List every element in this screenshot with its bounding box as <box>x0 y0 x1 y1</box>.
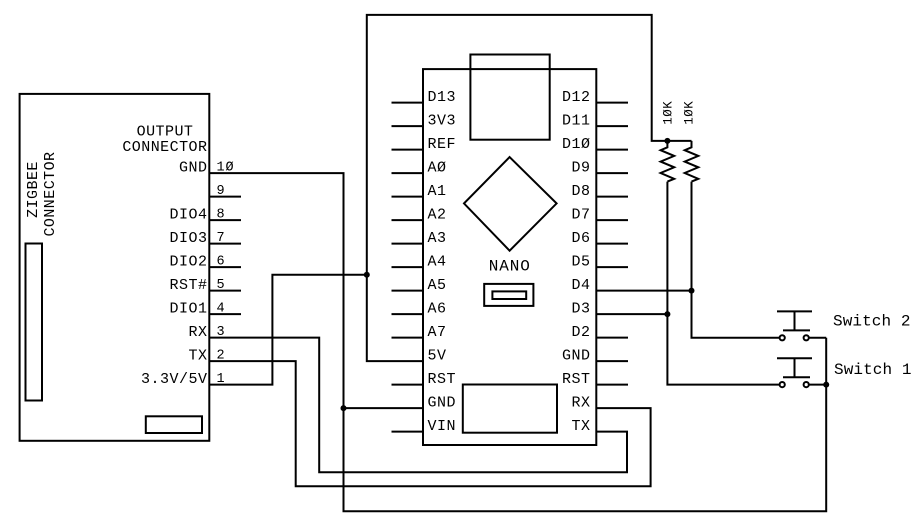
svg-text:1ØK: 1ØK <box>661 101 675 125</box>
svg-text:2: 2 <box>217 349 226 364</box>
svg-text:4: 4 <box>217 302 226 317</box>
resistor R2 10K (pull-up on D4) <box>685 141 699 182</box>
svg-text:A5: A5 <box>428 277 447 294</box>
svg-text:A1: A1 <box>428 183 447 200</box>
nano right pin D9 stub <box>596 172 628 174</box>
svg-text:D7: D7 <box>571 207 590 224</box>
svg-text:DIO1: DIO1 <box>169 301 207 318</box>
svg-text:NANO: NANO <box>489 258 531 276</box>
svg-text:OUTPUT: OUTPUT <box>137 124 194 141</box>
nano left pin A0 stub <box>392 172 424 174</box>
nano left pin REF stub <box>392 149 424 151</box>
svg-text:3V3: 3V3 <box>428 113 457 130</box>
nano right pin D5 stub <box>596 266 628 268</box>
svg-text:1ØK: 1ØK <box>683 101 697 125</box>
svg-text:3.3V/5V: 3.3V/5V <box>141 371 208 388</box>
svg-text:ZIGBEE: ZIGBEE <box>25 161 42 218</box>
zigbee pin 9 stub <box>209 196 241 198</box>
nano right pin D10 stub <box>596 149 628 151</box>
nano left pin D13 stub <box>392 102 424 104</box>
wire switch 2 right contact to GND rail <box>809 337 826 339</box>
nano icsp header outer <box>484 284 533 306</box>
svg-text:A4: A4 <box>428 254 447 271</box>
label OUTPUT CONNECTOR title <box>122 124 207 157</box>
nano diamond logo <box>464 157 557 251</box>
nano icsp header inner <box>492 291 526 299</box>
svg-text:GND: GND <box>428 395 457 412</box>
wire nano D3 to resistor R1 and switch 1 <box>596 313 667 315</box>
junction: switch1 right contact to GND rail <box>823 382 829 388</box>
zigbee connector bottom tab <box>146 416 202 433</box>
svg-text:A2: A2 <box>428 207 447 224</box>
nano bottom module rect <box>463 385 557 433</box>
zigbee pin 4 stub <box>209 313 241 315</box>
nano right pin RST stub <box>596 384 628 386</box>
svg-text:TX: TX <box>188 348 207 365</box>
nano left pin 3V3 stub <box>392 125 424 127</box>
junction: D3 wire to R1/switch1 line <box>664 311 670 317</box>
svg-text:D3: D3 <box>571 301 590 318</box>
nano right pin D11 stub <box>596 125 628 127</box>
wire GND: zigbee pin 10 down around bottom up to switch contacts <box>209 173 826 511</box>
svg-text:9: 9 <box>217 184 226 199</box>
zigbee pin 6 stub <box>209 266 241 268</box>
wire zigbee TX to nano RX <box>209 361 650 486</box>
label ZIGBEE CONNECTOR (rotated) <box>25 151 59 236</box>
wire zigbee RX to nano TX <box>209 338 627 473</box>
zigbee pin 7 stub <box>209 243 241 245</box>
svg-text:A7: A7 <box>428 324 447 341</box>
svg-text:RST#: RST# <box>169 277 207 294</box>
svg-text:CONNECTOR: CONNECTOR <box>122 139 207 156</box>
wire R2 bottom down to switch 2 left contact <box>692 182 780 338</box>
nano right pin D2 stub <box>596 337 628 339</box>
switch SW2 (Switch 2) pushbutton symbol <box>777 311 812 340</box>
svg-text:D11: D11 <box>562 113 591 130</box>
zigbee connector J1 body <box>20 94 210 441</box>
svg-text:8: 8 <box>217 208 226 223</box>
svg-text:D5: D5 <box>571 254 590 271</box>
wire GND branch to nano GND pin <box>344 407 424 409</box>
nano left pin A3 stub <box>392 243 424 245</box>
wire 5V loop: nano 5V pin up over the top to resistor tops <box>367 15 692 361</box>
svg-text:6: 6 <box>217 255 226 270</box>
junction: D4 wire to R2/switch2 line <box>689 288 695 294</box>
svg-text:RST: RST <box>562 371 591 388</box>
nano left pin A1 stub <box>392 196 424 198</box>
zigbee pin 5 stub <box>209 290 241 292</box>
nano left pin A7 stub <box>392 337 424 339</box>
svg-text:7: 7 <box>217 231 226 246</box>
wire nano D4 to resistor R2 and switch 2 <box>596 290 691 292</box>
svg-text:RST: RST <box>428 371 457 388</box>
nano right pin D6 stub <box>596 243 628 245</box>
svg-text:D2: D2 <box>571 324 590 341</box>
svg-text:D4: D4 <box>571 277 590 294</box>
svg-text:5V: 5V <box>428 348 447 365</box>
svg-text:A6: A6 <box>428 301 447 318</box>
nano left pin A4 stub <box>392 266 424 268</box>
nano left pin A5 stub <box>392 290 424 292</box>
nano left pin VIN stub <box>392 431 424 433</box>
nano left pin A6 stub <box>392 313 424 315</box>
svg-text:1: 1 <box>217 372 226 387</box>
nano usb connector <box>470 55 549 140</box>
resistor R1 10K (pull-up on D3) <box>661 141 675 182</box>
svg-text:D13: D13 <box>428 89 457 106</box>
junction: GND wire branch to nano GND <box>341 405 347 411</box>
svg-text:Switch 1: Switch 1 <box>834 361 912 379</box>
nano right pin D12 stub <box>596 102 628 104</box>
svg-text:DIO3: DIO3 <box>169 230 207 247</box>
zigbee pin 8 stub <box>209 219 241 221</box>
svg-text:GND: GND <box>179 160 208 177</box>
nano right pin GND stub <box>596 360 628 362</box>
zigbee connector pin strip <box>26 244 43 401</box>
nano left pin RST stub <box>392 384 424 386</box>
svg-text:Switch 2: Switch 2 <box>833 313 911 331</box>
svg-text:D1Ø: D1Ø <box>562 136 591 153</box>
svg-text:D12: D12 <box>562 89 591 106</box>
nano right pin D7 stub <box>596 219 628 221</box>
svg-text:1Ø: 1Ø <box>217 161 235 176</box>
svg-text:A3: A3 <box>428 230 447 247</box>
svg-text:CONNECTOR: CONNECTOR <box>42 151 59 236</box>
svg-text:TX: TX <box>571 418 590 435</box>
wire 3.3V/5V: zigbee pin 1 to 5V net <box>209 275 366 385</box>
svg-text:3: 3 <box>217 325 226 340</box>
nano left pin A2 stub <box>392 219 424 221</box>
svg-text:GND: GND <box>562 348 591 365</box>
svg-text:D9: D9 <box>571 160 590 177</box>
svg-text:D8: D8 <box>571 183 590 200</box>
junction: zigbee 3.3V/5V to nano 5V wire <box>364 272 370 278</box>
svg-text:VIN: VIN <box>428 418 457 435</box>
svg-text:5: 5 <box>217 278 226 293</box>
wire switch 1 right contact to GND rail <box>809 384 826 386</box>
junction: 5V wire to resistor R1 top <box>664 138 670 144</box>
switch SW1 (Switch 1) pushbutton symbol <box>777 358 812 387</box>
nano right pin D8 stub <box>596 196 628 198</box>
svg-text:DIO2: DIO2 <box>169 254 207 271</box>
svg-text:DIO4: DIO4 <box>169 207 207 224</box>
arduino nano U1 body <box>423 69 596 445</box>
svg-text:REF: REF <box>428 136 457 153</box>
wire R1 bottom down to switch 1 left contact <box>667 182 779 385</box>
svg-text:D6: D6 <box>571 230 590 247</box>
svg-text:RX: RX <box>188 324 207 341</box>
svg-text:AØ: AØ <box>428 160 447 177</box>
svg-text:RX: RX <box>571 395 590 412</box>
